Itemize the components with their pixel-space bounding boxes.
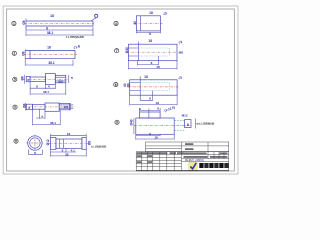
part 4 bottom dim (136, 31, 160, 33)
svg-text:8: 8 (36, 84, 38, 88)
company name (bold CJK smudge) (199, 163, 228, 168)
svg-text:4: 4 (48, 85, 50, 89)
title block second label row (184, 156, 208, 158)
svg-text:Ø8: Ø8 (23, 103, 27, 107)
svg-text:Ø40: Ø40 (129, 119, 133, 125)
svg-text:Ø8: Ø8 (179, 50, 183, 54)
part 9 top boss (140, 112, 161, 118)
part 2 bottom dim (25, 60, 73, 66)
part 8 bottom dims (51, 148, 77, 152)
svg-text:18: 18 (47, 46, 51, 50)
part 8 cross centerlines (26, 135, 44, 152)
part 1 left diameter dim line (25, 19, 27, 29)
part 3 left cap (26, 104, 32, 110)
svg-text:8: 8 (27, 78, 29, 82)
title block signature cells (137, 155, 142, 157)
svg-text:±:LƒBB§8ùBB: ±:LƒBB§8ùBB (66, 35, 84, 39)
title block heavy bottom edge (136, 170, 229, 172)
part 7 outline (128, 44, 177, 61)
part 1 dim line y35 (26, 31, 93, 36)
part 3 dims below (36, 109, 45, 119)
part 9 bottom dims (136, 134, 160, 136)
part 9 centerline bright red (134, 125, 192, 127)
part 8 centerline (49, 142, 88, 144)
part 4 inner edge (140, 16, 142, 31)
svg-text:38.1: 38.1 (47, 31, 53, 35)
part 2 left dim line (24, 49, 26, 65)
part 6 dim line 1 (140, 91, 152, 102)
balloon 7 (115, 49, 119, 53)
part 8 center mark red (32, 140, 39, 146)
logo yellow with blue check (189, 162, 198, 170)
part 5 right dim line (68, 75, 70, 83)
svg-text:8: 8 (187, 123, 189, 127)
part 2 centerline (24, 54, 78, 56)
part 5 right cylinder (55, 75, 66, 83)
part 3 left dim line (25, 103, 27, 111)
part 9 threaded taper teal (174, 121, 184, 131)
part 4 outline (136, 16, 160, 31)
balloon 4 (114, 21, 118, 25)
svg-text:4: 4 (41, 114, 43, 118)
balloon 3 (13, 105, 17, 109)
svg-text:38.1: 38.1 (48, 61, 54, 65)
svg-text:M8: M8 (58, 79, 63, 83)
part 8 flange (51, 137, 56, 149)
balloon 8 (14, 139, 18, 143)
svg-text:18: 18 (67, 132, 71, 136)
svg-text:18: 18 (155, 101, 159, 105)
svg-text:8: 8 (46, 27, 48, 31)
part 6 outline (130, 80, 177, 95)
svg-text:1: 1 (13, 22, 15, 26)
part 4 centerline (134, 22, 162, 24)
svg-text:5: 5 (14, 78, 16, 82)
part 5 mid cylinder (30, 77, 45, 81)
svg-text:38.1: 38.1 (43, 90, 49, 94)
svg-text:18: 18 (149, 11, 153, 15)
svg-text:8: 8 (34, 151, 36, 155)
svg-text:Ø8: Ø8 (22, 20, 26, 24)
part 7 inner step (128, 42, 138, 61)
svg-text:±:LƒB§8ùBB: ±:LƒB§8ùBB (91, 144, 106, 148)
product model label (185, 143, 193, 145)
part 3 mid cylinder (33, 105, 46, 110)
part 3 right threaded section (59, 103, 69, 109)
part 8 body (56, 139, 82, 148)
part 2 outline (25, 50, 75, 58)
svg-text:±:LƒBB§8ùB: ±:LƒBB§8ùB (199, 122, 214, 126)
part 8 side view top dim (51, 134, 87, 138)
title block tiny text row (smudge) (137, 152, 168, 154)
svg-text:7: 7 (116, 49, 118, 53)
outer sheet frame (3, 6, 238, 174)
svg-text:Ø8: Ø8 (21, 76, 25, 80)
part 9 right dim (194, 119, 196, 129)
svg-text:3: 3 (14, 106, 16, 110)
part 8 front view circles (28, 136, 42, 150)
balloon 1 (12, 21, 16, 25)
balloon 9 (115, 120, 119, 124)
part 7 centerline (127, 51, 180, 53)
svg-text:4: 4 (115, 22, 117, 26)
part 3 centerline (24, 106, 75, 108)
part 5 chained dims below (30, 82, 55, 89)
balloon 6 (114, 83, 118, 87)
svg-text:38.1: 38.1 (50, 121, 56, 125)
part 5 overall dim (30, 83, 66, 95)
part 5 left dim line (24, 75, 26, 84)
part 1 outline (26, 21, 93, 26)
inner sheet frame (7, 9, 235, 171)
part 1 dim line y30 (26, 27, 93, 31)
svg-text:21B(01): 21B(01) (195, 158, 204, 162)
part 5 collar (46, 74, 56, 85)
svg-text:40: 40 (133, 21, 137, 25)
svg-text:18: 18 (156, 65, 160, 69)
svg-text:9: 9 (116, 121, 118, 125)
svg-text:8: 8 (151, 61, 153, 65)
svg-text:M8: M8 (64, 106, 69, 110)
part 6 dim line 2 (130, 95, 177, 105)
balloon 2 (12, 51, 16, 55)
svg-text:Ø12: Ø12 (46, 139, 50, 145)
svg-text:8: 8 (70, 77, 74, 79)
part 8 right cap (82, 137, 86, 149)
svg-text:18: 18 (50, 14, 54, 18)
part 6 hidden hole cyan (140, 83, 169, 91)
part 6 inner step (130, 76, 141, 100)
svg-text:6: 6 (115, 83, 117, 87)
svg-text:04-26-T-: 04-26-T- (185, 158, 195, 162)
part 6 centerline bright red (128, 86, 179, 88)
part 8 base tab below circle (28, 150, 42, 155)
svg-text:8: 8 (15, 140, 17, 144)
svg-text:8: 8 (149, 32, 151, 36)
svg-text:18: 18 (144, 75, 148, 79)
svg-text:2: 2 (13, 52, 15, 56)
svg-text:4.1: 4.1 (71, 148, 76, 152)
balloon 5 (13, 77, 17, 81)
part 1 centerline (25, 23, 95, 25)
svg-text:18: 18 (154, 135, 158, 139)
part 5 centerline (23, 78, 70, 80)
part 9 top dims (140, 108, 161, 112)
part 7 hidden hole cyan (138, 48, 169, 56)
product drawing no label (185, 148, 193, 150)
part 3 collar (45, 103, 59, 111)
svg-text:8: 8 (28, 106, 30, 110)
part 9 nut end (185, 120, 191, 128)
part 5 left cap rect (26, 76, 30, 81)
title block upper box (146, 142, 229, 152)
part 7 dim line 1 (137, 56, 158, 65)
part 3 end cap (71, 103, 74, 110)
title block lower box (136, 152, 229, 171)
svg-text:Ø8: Ø8 (21, 51, 25, 55)
part 1 leader circle top right (92, 18, 97, 21)
part 7 dim line 2 (128, 61, 177, 70)
svg-text:8: 8 (149, 97, 151, 101)
svg-text:38: 38 (65, 152, 69, 156)
svg-text:M12: M12 (182, 114, 188, 118)
svg-text:18: 18 (148, 39, 152, 43)
part 9 main body (136, 118, 174, 134)
